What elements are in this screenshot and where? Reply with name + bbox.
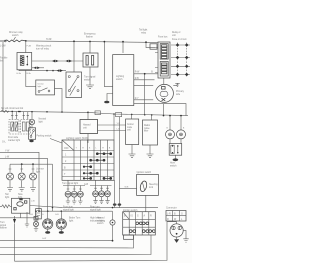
svg-text:unit: unit: [127, 129, 131, 132]
connector dome: [118, 203, 122, 205]
switch S4 below L3: [29, 128, 36, 140]
wire bottom bus upper: [30, 206, 158, 208]
svg-text:Y-R: Y-R: [117, 123, 121, 125]
svg-text:flasher: flasher: [0, 227, 7, 230]
component small box above lamp: [34, 217, 38, 221]
connector pair (diamonds): [66, 60, 73, 63]
T2 appendage cell: [124, 235, 134, 239]
svg-text:Fuse box: Fuse box: [158, 37, 168, 39]
connector CN2 dashed box: [169, 144, 182, 156]
wire relay bottom drop: [25, 70, 27, 87]
svg-text:Licence: Licence: [36, 169, 45, 171]
svg-text:light: light: [36, 170, 41, 173]
label licence light: [36, 169, 45, 174]
wire feed to fusebox: [146, 42, 155, 47]
node: [61, 111, 63, 113]
wire drops to L2: [24, 112, 28, 120]
wire drop from feed1 to bus: [144, 74, 146, 115]
label front side marker: [8, 136, 20, 142]
svg-text:L-W: L-W: [31, 201, 35, 203]
ground G7: [19, 181, 25, 191]
svg-text:Tail light: Tail light: [139, 29, 148, 32]
svg-text:Turn signal light: Turn signal light: [62, 182, 78, 185]
wire turn bracket B: [90, 185, 112, 187]
wire U2 to U3 lower: [98, 130, 126, 132]
svg-text:G-B: G-B: [84, 184, 89, 186]
wire into ignition switch: [115, 180, 137, 207]
label brake turn light: [69, 217, 81, 223]
wire bus2: [0, 235, 134, 248]
wire drop to L3: [31, 112, 33, 120]
inline connector box: [116, 113, 122, 117]
svg-text:Relay or: Relay or: [172, 31, 181, 34]
node: [31, 111, 33, 113]
hazard pilot lamp L14: [110, 220, 115, 225]
wire drops group B: [96, 180, 108, 191]
svg-text:W-B: W-B: [29, 214, 34, 216]
T1 contacts row4: [83, 172, 99, 175]
lamp L11: [99, 191, 105, 197]
wire left feed row 1: [0, 152, 39, 211]
svg-text:Turn signal: Turn signal: [84, 76, 96, 79]
wire drops group A: [68, 180, 80, 191]
ground G8: [30, 181, 36, 191]
node: [144, 73, 146, 75]
wire drop to U2: [87, 112, 89, 119]
wire flasher to ground: [89, 67, 91, 85]
label steering lock: [149, 183, 158, 189]
ground G4 below U3: [129, 145, 136, 158]
svg-text:code: code: [127, 127, 133, 129]
node J2: [89, 41, 91, 43]
ground G10: [34, 227, 38, 232]
ground dome G15: [173, 158, 179, 161]
svg-text:Primary: Primary: [176, 90, 185, 93]
wire U2 to U3 upper: [98, 124, 126, 126]
svg-text:light: light: [5, 196, 10, 199]
switch S1 dimmer (zigzag wire segment): [0, 40, 26, 42]
lamp L7: [65, 191, 71, 197]
wire bus3: [0, 235, 151, 255]
wire headlamp feed 3: [134, 85, 153, 87]
node: [38, 210, 40, 212]
node: [61, 210, 63, 212]
connector CN1 dashed column: [171, 43, 190, 78]
socket lamp SL2: [56, 219, 66, 229]
wire drop to U4: [151, 115, 153, 120]
svg-text:Hazard: Hazard: [97, 217, 105, 220]
node: [21, 163, 23, 165]
table T1 lighting switch positions: [62, 140, 114, 180]
svg-text:H-3R: H-3R: [46, 39, 52, 41]
node: [151, 114, 153, 116]
wire bus1: [0, 239, 113, 241]
svg-text:Front turn: Front turn: [63, 206, 74, 209]
lamp L5: [18, 173, 25, 180]
svg-text:signal light: signal light: [90, 208, 101, 211]
node: [47, 210, 49, 212]
node: [122, 41, 124, 43]
label warning circuit turn-off relay: [36, 45, 51, 51]
node: [104, 41, 106, 43]
label sealed beam: [176, 90, 185, 96]
wire SL3 feed: [167, 222, 177, 224]
connector pair (diamonds): [34, 67, 41, 70]
resistor R1 left: [0, 205, 12, 208]
svg-text:Steering: Steering: [149, 183, 158, 186]
grounds GB1: [93, 197, 97, 204]
wire headlamp feed 2: [134, 79, 155, 81]
T1 contacts row2: [89, 159, 105, 162]
wire left feed row 2: [0, 159, 48, 212]
label high beam indicator: [90, 218, 104, 223]
label tail light: [5, 194, 23, 199]
wire left feeder: [2, 42, 4, 111]
wire L13 feed: [35, 211, 37, 221]
connector dome: [113, 203, 117, 205]
table T2 ignition switch connections: [123, 212, 156, 235]
svg-text:Neutral: Neutral: [39, 118, 47, 121]
flasher unit U2: [80, 120, 98, 134]
svg-text:Ignition switch: Ignition switch: [123, 209, 138, 212]
svg-text:warning: warning: [97, 219, 106, 222]
node: [180, 115, 182, 117]
svg-text:unit: unit: [172, 34, 176, 37]
lamp assembly dashed box L2: [21, 120, 31, 135]
svg-text:signal: signal: [0, 225, 6, 227]
node: [46, 111, 48, 113]
wire drop SL1: [47, 211, 49, 219]
label fuse or circuit: [172, 31, 187, 41]
svg-text:Radio: Radio: [144, 125, 151, 127]
wire ignition to table: [145, 195, 147, 211]
wire licence drop 1: [9, 164, 11, 172]
T1 contacts row5: [83, 177, 112, 180]
wire headlamp feed 1: [134, 73, 158, 75]
indicator lamp L3 neutral: [29, 119, 34, 124]
label dimmer relay switch: [9, 31, 24, 37]
wire drop to U1 top: [122, 42, 124, 53]
svg-text:Side: Side: [18, 194, 23, 196]
svg-text:switch: switch: [97, 222, 104, 225]
svg-text:Brake Turn: Brake Turn: [69, 217, 81, 220]
ground dome under parking switch: [29, 140, 33, 142]
wire drop to U3: [131, 114, 133, 119]
svg-text:light: light: [69, 219, 74, 222]
wire headlamp feed 4: [134, 99, 153, 101]
node: [112, 240, 114, 242]
wire drops to L1: [12, 111, 16, 119]
grounds GB3: [105, 197, 109, 204]
svg-text:light: light: [39, 120, 44, 123]
grounds GA2: [72, 197, 76, 204]
lamp assembly dashed box L1: [9, 120, 19, 135]
T1 contacts row3: [83, 165, 92, 168]
wire L3 to S4: [31, 125, 33, 128]
wire mid-left horizontal: [19, 69, 66, 72]
ground G12: [60, 229, 62, 231]
svg-text:unit: unit: [83, 126, 87, 129]
wire licence drop 2: [21, 164, 23, 172]
node: [112, 207, 114, 209]
svg-text:turn-off relay: turn-off relay: [36, 47, 50, 50]
svg-text:switch: switch: [170, 164, 177, 167]
svg-text:marker light: marker light: [8, 139, 20, 142]
fuse box F1: [158, 42, 170, 78]
tail lamp socket SL3: [170, 224, 183, 237]
label hazard switch: [97, 217, 106, 226]
lamp L12: [105, 191, 111, 197]
wire licence drop 3: [32, 164, 34, 172]
svg-text:Turn: Turn: [0, 221, 5, 224]
svg-text:switch: switch: [84, 78, 91, 81]
label rear turn signal: [90, 206, 101, 212]
node: [35, 210, 37, 212]
svg-text:Warning circuit: Warning circuit: [36, 45, 51, 48]
wire drop SL2: [60, 211, 62, 219]
wire flasher bottom: [20, 213, 22, 218]
svg-text:signal light: signal light: [63, 208, 74, 211]
fuse FL2 squiggle on bus: [1, 110, 9, 112]
svg-text:L-R: L-R: [167, 214, 171, 216]
svg-text:Horn: Horn: [170, 162, 176, 165]
node J1: [25, 40, 27, 42]
wire headlamp top stub: [163, 78, 165, 85]
wire drop to HN1: [169, 116, 171, 130]
wire L14 up: [112, 211, 114, 220]
horn HN2: [177, 130, 186, 139]
ground G2 (dome): [104, 101, 109, 104]
svg-text:switch: switch: [116, 78, 123, 81]
connector ticks B: [94, 187, 109, 189]
lamp L8: [71, 191, 77, 197]
wire drop from licence feeder: [52, 164, 54, 211]
label horn: [170, 162, 177, 168]
svg-text:light: light: [38, 85, 42, 88]
lighting switch U1 main box: [113, 55, 134, 106]
svg-text:Fuse or circuit: Fuse or circuit: [172, 38, 187, 41]
svg-text:Dimmer relay: Dimmer relay: [9, 31, 24, 34]
wire drop to warning relay: [25, 41, 27, 53]
ground G11: [47, 229, 49, 231]
wire drop to HN2: [180, 116, 182, 130]
ignition switch box S5: [137, 174, 159, 195]
node: [87, 112, 89, 114]
wire relay output: [32, 60, 83, 62]
wire licence bracket: [10, 163, 53, 165]
connector box CN3: [36, 209, 42, 219]
wire right mid bus: [88, 112, 188, 115]
node: [113, 113, 115, 115]
T2 header letters: [124, 215, 152, 218]
wire L14 down to bus1: [112, 225, 114, 241]
wire main top bus: [26, 41, 159, 43]
svg-text:Tail: Tail: [5, 194, 9, 196]
svg-text:OFF: OFF: [64, 148, 69, 150]
wire horn stems: [170, 139, 181, 144]
ground G14 right edge: [183, 230, 189, 242]
svg-text:No volt circuit test link: No volt circuit test link: [1, 107, 24, 110]
wire bus4: [15, 222, 168, 262]
wire turn bracket A: [63, 185, 85, 187]
svg-text:Colour: Colour: [127, 123, 134, 126]
colour code box U3: [126, 119, 139, 145]
connector ticks: [9, 168, 35, 170]
svg-text:Ignition switch: Ignition switch: [137, 171, 152, 174]
ground G3 right of headlamp: [173, 83, 179, 86]
wire fuse stubs: [155, 48, 158, 73]
node: [52, 70, 54, 72]
label fusible link: [0, 58, 8, 63]
wire headlamp bottom to bus: [163, 104, 165, 116]
node: [52, 207, 54, 209]
wire U2 bottom: [87, 134, 89, 144]
lamp L4: [7, 173, 14, 180]
node: [131, 114, 133, 116]
turn signal flasher unit K3: [12, 198, 30, 213]
grounds GA3: [78, 197, 82, 204]
wire mid bus: [0, 111, 88, 112]
lamp L6: [30, 173, 37, 180]
wire lower left: [0, 217, 36, 219]
svg-text:Lighting: Lighting: [116, 75, 125, 78]
node: [73, 40, 75, 42]
ground G6: [7, 181, 13, 191]
wire bottom bus lower: [39, 210, 113, 212]
svg-text:Connector: Connector: [166, 207, 177, 210]
svg-text:noise: noise: [144, 128, 150, 130]
svg-text:Front side: Front side: [8, 136, 19, 139]
node: [144, 114, 146, 116]
ground G9: [25, 224, 29, 227]
node: [169, 115, 171, 117]
node: [145, 41, 147, 43]
wire from S2 to bus: [55, 89, 63, 112]
lamp L9: [78, 191, 84, 197]
svg-text:IG: IG: [131, 216, 134, 218]
lamp L10: [93, 191, 99, 197]
table T3 legend: [166, 211, 186, 222]
svg-text:side: side: [176, 94, 181, 96]
svg-text:G: G: [181, 214, 183, 216]
svg-text:Rear turn: Rear turn: [90, 206, 100, 209]
component small junction box: [150, 44, 157, 49]
indicator lamp L13: [33, 221, 38, 226]
label emergency flasher: [84, 33, 96, 39]
ground G13 below SL3: [176, 237, 178, 239]
wire drop to table T1: [113, 114, 115, 140]
connector pair (diamonds): [52, 60, 59, 63]
wire drop from inline connector: [118, 117, 120, 208]
label tail light relay: [139, 29, 148, 35]
wire drop to emergency flasher: [89, 42, 91, 54]
turn signal flasher label: [0, 221, 7, 230]
label neutral light: [39, 118, 47, 124]
svg-text:Lighting switch (W-B): Lighting switch (W-B): [66, 137, 88, 140]
T1 row labels: [64, 148, 69, 176]
svg-text:Hazard: Hazard: [83, 124, 91, 127]
headlamp H1 (big circle): [155, 84, 173, 102]
svg-text:P-3B: P-3B: [27, 46, 32, 48]
svg-text:switch: switch: [12, 34, 19, 37]
wire to light switch dashed box: [26, 86, 36, 88]
connector pair (diamonds): [57, 69, 64, 72]
grounds GB2: [99, 197, 103, 204]
svg-text:Emergency: Emergency: [84, 33, 96, 36]
wire small drop: [26, 212, 28, 224]
node: [163, 115, 165, 117]
ground G1: [86, 85, 94, 89]
wire relay output 2: [32, 67, 44, 69]
label front turn signal: [63, 206, 74, 212]
svg-text:Parking switch: Parking switch: [37, 135, 53, 138]
node: [46, 70, 48, 72]
wire headlamp feed 5: [134, 103, 186, 115]
switch S2 (dashed box lighting sub-switch): [36, 80, 55, 95]
relay K1 warning circuit turn-off relay: [17, 53, 32, 70]
leader line to T1: [50, 139, 62, 144]
node: [32, 163, 34, 165]
T1 contacts row1: [96, 152, 112, 155]
socket lamp SL1: [43, 219, 53, 229]
svg-text:flasher: flasher: [86, 35, 93, 38]
svg-text:relay: relay: [141, 31, 147, 34]
radio suppressor U4: [143, 120, 158, 145]
svg-text:Fusible: Fusible: [0, 58, 8, 60]
ground G5 below U4: [147, 145, 154, 158]
T2 contacts row2: [136, 222, 149, 225]
wire ground stub from lighting switch: [107, 94, 113, 101]
inline connector box: [95, 111, 101, 115]
wire flasher drop: [14, 216, 16, 261]
relay K2 emergency flasher: [83, 53, 98, 67]
T2 contacts row3: [129, 230, 155, 233]
horn HN1: [166, 130, 175, 139]
connector arrow A1: [13, 219, 16, 224]
wire horn switch to ground: [174, 155, 176, 158]
grounds GA: [66, 197, 70, 204]
wire drop to S3: [73, 41, 75, 72]
wire left side feeder: [104, 42, 112, 87]
connector ticks A: [67, 188, 82, 190]
switch S3 turn signal switch box: [66, 72, 82, 98]
svg-text:G-W: G-W: [42, 238, 46, 240]
node: [19, 111, 21, 113]
svg-text:filter: filter: [144, 130, 149, 133]
